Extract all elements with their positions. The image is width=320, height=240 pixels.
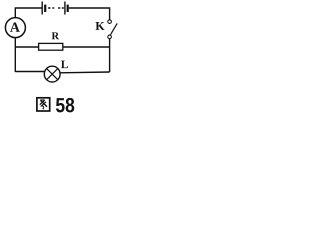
battery cell 2 long plate — [64, 2, 66, 15]
caption: 58 — [56, 98, 74, 113]
wire: battery to switch (top-right corner) — [69, 8, 110, 20]
lamp L — [44, 66, 60, 82]
resistor R — [39, 43, 63, 50]
switch K bottom contact — [108, 35, 112, 39]
label R — [52, 32, 60, 39]
wire: right rail, switch down to bottom-right corner — [109, 39, 111, 72]
label K — [96, 22, 105, 30]
switch K top contact — [108, 20, 112, 24]
battery cell 2 short thick plate — [67, 5, 69, 12]
label A — [10, 23, 20, 32]
battery cell 1 long plate — [41, 2, 43, 15]
wire: ammeter top to battery (top-left corner) — [15, 8, 42, 18]
label L — [61, 61, 68, 69]
wire: lamp to bottom-right corner — [60, 71, 110, 74]
switch K blade (open) — [111, 23, 118, 34]
caption: character 图 (drawn) — [37, 98, 50, 111]
wire: left rail, ammeter bottom to bottom-left corner — [14, 38, 16, 72]
battery cell 1 short thick plate — [44, 5, 46, 12]
battery dashed link (more cells) — [48, 7, 51, 9]
wire: bottom-left corner to lamp — [15, 71, 44, 73]
wire: resistor to right rail — [63, 46, 110, 48]
wire: left rail to resistor — [15, 46, 38, 48]
ammeter A — [5, 18, 25, 38]
